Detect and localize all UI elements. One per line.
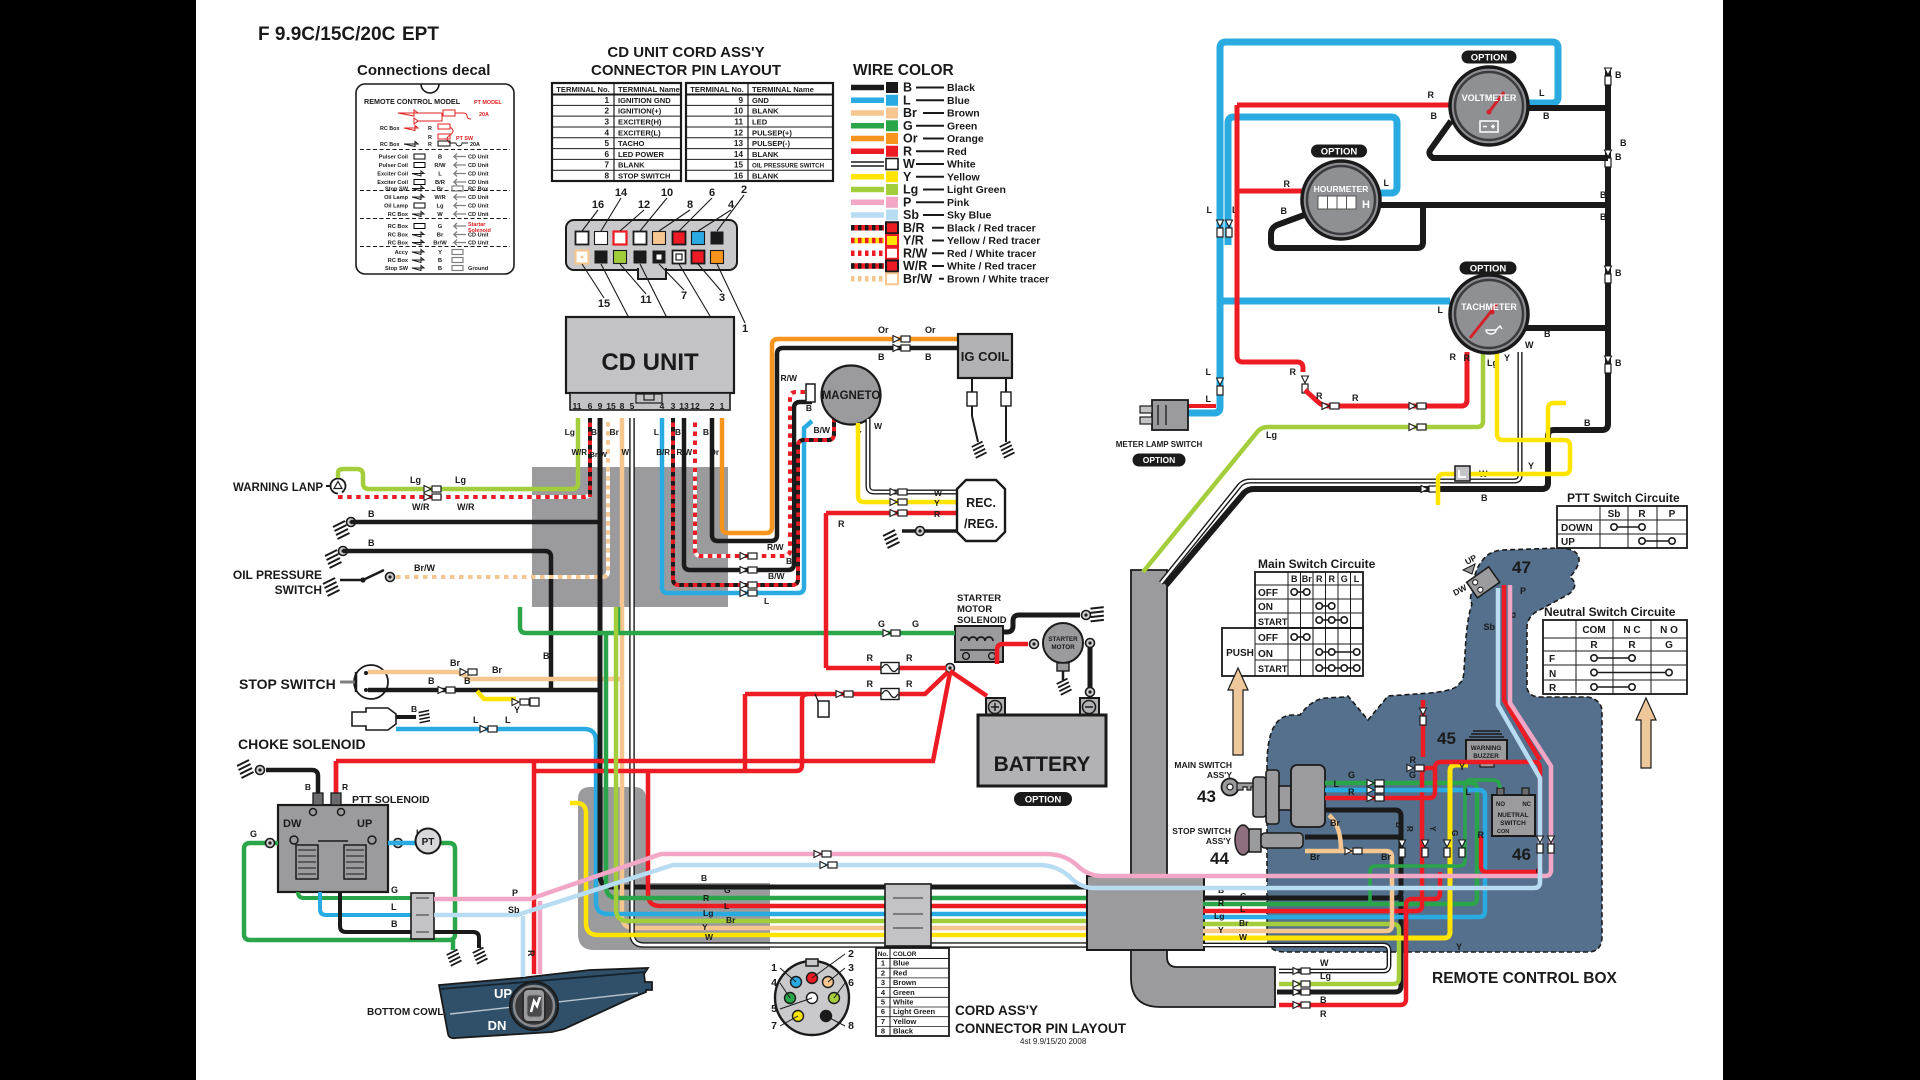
svg-text:10: 10 <box>734 107 744 116</box>
svg-text:OIL PRESSURE: OIL PRESSURE <box>233 568 322 582</box>
svg-text:EXCITER(H): EXCITER(H) <box>618 117 662 126</box>
svg-text:BLANK: BLANK <box>752 172 779 181</box>
svg-text:W: W <box>621 448 629 457</box>
svg-text:7: 7 <box>604 161 609 170</box>
svg-text:B: B <box>1620 138 1627 148</box>
svg-text:R/W: R/W <box>676 448 692 457</box>
svg-text:20A: 20A <box>470 142 480 148</box>
svg-text:Black: Black <box>893 1027 914 1036</box>
svg-text:COM: COM <box>1582 625 1605 636</box>
svg-text:B: B <box>1291 574 1298 584</box>
svg-text:2: 2 <box>848 948 854 960</box>
svg-text:DW: DW <box>283 818 302 830</box>
svg-text:2: 2 <box>604 107 609 116</box>
svg-text:METER LAMP SWITCH: METER LAMP SWITCH <box>1116 440 1203 449</box>
svg-text:G: G <box>250 829 257 839</box>
svg-text:R: R <box>1464 353 1471 363</box>
svg-text:B: B <box>925 352 932 362</box>
svg-text:B: B <box>1544 329 1551 339</box>
svg-text:START: START <box>1258 617 1288 627</box>
svg-text:RC Box: RC Box <box>388 224 409 230</box>
svg-text:TACHMETER: TACHMETER <box>1461 302 1517 312</box>
svg-text:VOLTMETER: VOLTMETER <box>1462 93 1517 103</box>
svg-text:Lg: Lg <box>455 475 466 485</box>
svg-text:RC Box: RC Box <box>388 233 409 239</box>
svg-text:MAGNETO: MAGNETO <box>822 390 881 402</box>
svg-text:45: 45 <box>1437 729 1456 748</box>
svg-text:Yellow: Yellow <box>947 171 981 183</box>
svg-text:1: 1 <box>742 323 748 335</box>
svg-text:13: 13 <box>679 401 689 411</box>
svg-text:UP: UP <box>494 986 512 1001</box>
svg-text:Light Green: Light Green <box>947 184 1006 196</box>
svg-text:B: B <box>703 427 709 437</box>
svg-text:Ground: Ground <box>468 266 489 272</box>
svg-text:Br/W: Br/W <box>590 450 608 459</box>
svg-text:4: 4 <box>771 977 777 989</box>
svg-text:R: R <box>703 893 709 903</box>
svg-text:G: G <box>1348 770 1355 780</box>
svg-text:EXCITER(L): EXCITER(L) <box>618 128 661 137</box>
svg-text:Pulser Coil: Pulser Coil <box>379 155 409 161</box>
svg-text:P: P <box>512 888 518 898</box>
svg-text:BLANK: BLANK <box>752 107 779 116</box>
svg-text:R: R <box>526 950 536 957</box>
svg-text:F: F <box>1549 654 1555 665</box>
svg-text:BOTTOM COWL: BOTTOM COWL <box>367 1007 443 1018</box>
svg-text:B/R: B/R <box>656 448 670 457</box>
svg-text:R: R <box>906 679 913 689</box>
svg-text:11: 11 <box>573 401 582 411</box>
svg-text:White / Red tracer: White / Red tracer <box>947 261 1036 273</box>
svg-text:Stop SW: Stop SW <box>385 266 409 272</box>
svg-text:Br: Br <box>437 233 444 239</box>
svg-text:6: 6 <box>604 150 609 159</box>
svg-text:REMOTE CONTROL MODEL: REMOTE CONTROL MODEL <box>364 97 461 106</box>
svg-text:G: G <box>1240 891 1247 901</box>
svg-text:R: R <box>1410 755 1417 765</box>
svg-text:Br: Br <box>1330 818 1340 828</box>
svg-text:1: 1 <box>771 962 777 974</box>
svg-text:B: B <box>591 427 597 437</box>
svg-text:10: 10 <box>661 187 673 199</box>
svg-text:4: 4 <box>604 128 609 137</box>
svg-text:43: 43 <box>1197 787 1216 806</box>
svg-text:Exciter Coil: Exciter Coil <box>377 180 408 186</box>
svg-text:B: B <box>464 676 471 686</box>
svg-text:L: L <box>654 427 659 437</box>
svg-text:Exciter Coil: Exciter Coil <box>377 172 408 178</box>
svg-text:Br: Br <box>1381 852 1391 862</box>
svg-text:UP: UP <box>1561 537 1575 548</box>
svg-text:L: L <box>473 715 479 725</box>
svg-text:Orange: Orange <box>947 133 984 145</box>
svg-text:ASS'Y: ASS'Y <box>1206 836 1231 846</box>
svg-text:Y: Y <box>1456 942 1462 952</box>
svg-text:3: 3 <box>671 401 676 411</box>
svg-text:3: 3 <box>719 292 725 304</box>
svg-text:NC: NC <box>1522 802 1531 808</box>
svg-text:W/R: W/R <box>434 195 446 201</box>
svg-text:Br: Br <box>437 187 444 193</box>
svg-text:Br: Br <box>1310 852 1320 862</box>
svg-text:Y: Y <box>1218 925 1224 935</box>
svg-text:5: 5 <box>630 401 635 411</box>
svg-text:PUSH: PUSH <box>1226 648 1254 659</box>
svg-text:TACHO: TACHO <box>618 139 645 148</box>
svg-text:REMOTE CONTROL BOX: REMOTE CONTROL BOX <box>1432 970 1618 987</box>
svg-text:R/W: R/W <box>767 542 785 552</box>
svg-text:CD Unit: CD Unit <box>468 212 489 218</box>
svg-text:Sky Blue: Sky Blue <box>947 210 992 222</box>
svg-text:6: 6 <box>881 1007 885 1016</box>
svg-text:CD UNIT CORD ASS'Y: CD UNIT CORD ASS'Y <box>607 44 764 61</box>
svg-text:RC Box: RC Box <box>380 142 399 148</box>
svg-text:B: B <box>786 556 792 566</box>
svg-text:L: L <box>1384 178 1390 188</box>
svg-text:B: B <box>438 266 442 272</box>
svg-text:L: L <box>764 596 769 606</box>
svg-text:8: 8 <box>604 172 609 181</box>
svg-text:R: R <box>1284 179 1291 189</box>
svg-text:G: G <box>1450 830 1459 836</box>
svg-text:8: 8 <box>848 1020 854 1032</box>
svg-text:ON: ON <box>1258 602 1273 613</box>
svg-text:NUETRAL: NUETRAL <box>1497 812 1528 819</box>
svg-text:47: 47 <box>1512 558 1531 577</box>
svg-text:RC Box: RC Box <box>380 126 399 132</box>
svg-text:Lg: Lg <box>1266 430 1277 440</box>
svg-text:LED POWER: LED POWER <box>618 150 665 159</box>
svg-text:Brown / White tracer: Brown / White tracer <box>947 273 1049 285</box>
svg-text:R: R <box>1348 787 1355 797</box>
svg-text:CD UNIT: CD UNIT <box>601 349 699 376</box>
svg-text:W/R: W/R <box>571 448 587 457</box>
svg-text:WARNING LANP: WARNING LANP <box>233 482 323 494</box>
svg-text:OIL PRESSURE SWITCH: OIL PRESSURE SWITCH <box>752 163 825 170</box>
svg-text:CD Unit: CD Unit <box>468 163 489 169</box>
svg-text:3: 3 <box>848 962 854 974</box>
svg-text:R: R <box>1549 683 1557 694</box>
svg-text:COLOR: COLOR <box>893 951 917 958</box>
svg-text:WARNING: WARNING <box>1471 745 1502 752</box>
svg-text:P: P <box>1669 509 1676 520</box>
svg-text:B: B <box>806 403 812 413</box>
svg-text:B: B <box>1481 493 1488 503</box>
svg-text:13: 13 <box>734 139 744 148</box>
svg-text:CD Unit: CD Unit <box>468 233 489 239</box>
svg-text:R: R <box>428 142 432 148</box>
svg-text:Lg: Lg <box>410 475 421 485</box>
svg-text:PTT Switch Circuite: PTT Switch Circuite <box>1567 491 1680 505</box>
svg-text:44: 44 <box>1210 849 1229 868</box>
svg-text:Lg: Lg <box>1320 971 1331 981</box>
svg-text:Y: Y <box>1428 826 1437 832</box>
svg-text:Y: Y <box>702 922 708 932</box>
svg-text:Connections decal: Connections decal <box>357 62 490 79</box>
svg-text:Br/W: Br/W <box>414 563 436 573</box>
svg-text:Br: Br <box>610 427 620 437</box>
svg-text:B: B <box>1615 70 1622 80</box>
svg-text:R: R <box>1320 1009 1327 1019</box>
svg-text:STOP SWITCH: STOP SWITCH <box>618 172 670 181</box>
svg-text:R: R <box>867 653 874 663</box>
svg-text:L: L <box>1240 904 1245 914</box>
svg-text:START: START <box>1258 664 1288 674</box>
svg-text:W: W <box>437 212 443 218</box>
svg-text:9: 9 <box>738 96 743 105</box>
svg-text:CON: CON <box>1497 829 1509 835</box>
svg-text:R: R <box>342 782 348 792</box>
svg-text:B: B <box>368 538 375 548</box>
svg-text:Br: Br <box>492 665 502 675</box>
svg-text:B: B <box>438 155 442 161</box>
svg-text:N O: N O <box>1660 625 1678 636</box>
svg-text:W: W <box>934 488 943 498</box>
svg-text:R: R <box>1316 574 1323 584</box>
svg-text:Blue: Blue <box>893 959 909 968</box>
svg-text:B: B <box>1394 822 1403 828</box>
svg-text:11: 11 <box>734 117 743 126</box>
svg-text:3: 3 <box>604 117 609 126</box>
svg-text:Black: Black <box>947 82 975 94</box>
svg-text:EPT: EPT <box>402 24 439 45</box>
svg-text:12: 12 <box>690 401 700 411</box>
svg-text:MOTOR: MOTOR <box>1051 644 1075 651</box>
svg-text:Y: Y <box>1528 461 1534 471</box>
svg-text:N: N <box>1549 669 1556 680</box>
svg-text:9: 9 <box>598 401 603 411</box>
svg-text:4st 9.9/15/20 2008: 4st 9.9/15/20 2008 <box>1020 1037 1087 1046</box>
svg-text:Green: Green <box>947 120 977 132</box>
svg-text:B: B <box>368 509 375 519</box>
svg-text:Lg: Lg <box>436 204 444 210</box>
svg-text:Main Switch Circuite: Main Switch Circuite <box>1258 557 1376 571</box>
svg-text:B/R: B/R <box>435 180 446 186</box>
svg-text:B: B <box>391 919 398 929</box>
svg-text:CD Unit: CD Unit <box>468 172 489 178</box>
svg-text:R: R <box>1352 393 1359 403</box>
svg-text:R: R <box>428 126 432 132</box>
svg-text:Y: Y <box>514 705 520 715</box>
svg-text:Sb: Sb <box>1483 622 1495 632</box>
svg-text:5: 5 <box>604 139 609 148</box>
svg-text:B: B <box>675 427 681 437</box>
svg-text:RC Box: RC Box <box>388 212 409 218</box>
svg-text:1: 1 <box>604 96 609 105</box>
svg-text:15: 15 <box>598 298 610 310</box>
svg-text:Sb: Sb <box>508 905 520 915</box>
svg-text:B: B <box>1320 995 1327 1005</box>
svg-text:B: B <box>411 704 417 714</box>
svg-text:HOURMETER: HOURMETER <box>1314 184 1369 194</box>
svg-text:STOP SWITCH: STOP SWITCH <box>239 676 336 692</box>
svg-text:8: 8 <box>881 1027 885 1036</box>
svg-text:OPTION: OPTION <box>1321 146 1358 157</box>
svg-text:8: 8 <box>620 401 625 411</box>
svg-text:B: B <box>1600 190 1607 200</box>
svg-text:Oil Lamp: Oil Lamp <box>384 204 409 210</box>
svg-text:L: L <box>505 715 511 725</box>
svg-text:Or: Or <box>878 325 889 335</box>
svg-text:MAIN SWITCH: MAIN SWITCH <box>1174 760 1232 770</box>
svg-text:STOP SWITCH: STOP SWITCH <box>1172 826 1231 836</box>
svg-text:Lg: Lg <box>1214 911 1224 921</box>
svg-text:Y: Y <box>1504 353 1510 363</box>
svg-text:Pink: Pink <box>947 197 969 209</box>
svg-text:L: L <box>438 172 442 178</box>
svg-text:OFF: OFF <box>1258 588 1278 599</box>
svg-text:PT MODEL: PT MODEL <box>474 100 503 106</box>
svg-text:RC Box: RC Box <box>388 258 409 264</box>
svg-text:OPTION: OPTION <box>1025 794 1062 805</box>
svg-text:DOWN: DOWN <box>1561 523 1593 534</box>
svg-text:WIRE COLOR: WIRE COLOR <box>853 62 954 79</box>
svg-text:W: W <box>705 932 714 942</box>
svg-text:TERMINAL No.: TERMINAL No. <box>690 85 743 94</box>
svg-text:TERMINAL Name: TERMINAL Name <box>752 85 814 94</box>
svg-text:6: 6 <box>848 977 854 989</box>
svg-text:IG COIL: IG COIL <box>961 349 1009 364</box>
svg-text:12: 12 <box>638 199 650 211</box>
svg-text:OPTION: OPTION <box>1471 52 1508 63</box>
svg-text:ON: ON <box>1258 649 1273 660</box>
svg-text:G: G <box>438 224 443 230</box>
svg-text:16: 16 <box>592 199 604 211</box>
svg-text:L: L <box>1207 205 1213 215</box>
svg-text:CD Unit: CD Unit <box>468 204 489 210</box>
svg-text:TERMINAL Name: TERMINAL Name <box>618 85 680 94</box>
svg-text:1: 1 <box>881 959 885 968</box>
svg-text:G: G <box>1409 770 1416 780</box>
svg-text:B: B <box>305 782 311 792</box>
svg-text:7: 7 <box>881 1017 885 1026</box>
svg-text:BLANK: BLANK <box>752 150 779 159</box>
svg-text:CORD ASS'Y: CORD ASS'Y <box>955 1003 1038 1018</box>
svg-text:B: B <box>701 873 707 883</box>
svg-text:RC Box: RC Box <box>388 241 409 247</box>
svg-text:R: R <box>1638 509 1646 520</box>
svg-text:R: R <box>1290 367 1297 377</box>
svg-text:Lg: Lg <box>565 427 575 437</box>
svg-text:BLANK: BLANK <box>618 161 645 170</box>
svg-text:B: B <box>428 676 435 686</box>
svg-text:Neutral Switch Circuite: Neutral Switch Circuite <box>1544 605 1676 619</box>
svg-text:G: G <box>724 885 731 895</box>
svg-text:Br: Br <box>450 658 460 668</box>
svg-text:SWITCH: SWITCH <box>1500 820 1526 827</box>
svg-text:L: L <box>1438 305 1444 315</box>
svg-text:6: 6 <box>588 401 593 411</box>
svg-text:2: 2 <box>741 184 747 196</box>
svg-text:2: 2 <box>881 968 885 977</box>
svg-text:46: 46 <box>1512 845 1531 864</box>
svg-text:B: B <box>1431 111 1438 121</box>
svg-text:R: R <box>906 653 913 663</box>
svg-text:L: L <box>1334 779 1340 789</box>
svg-text:Light Green: Light Green <box>893 1007 936 1016</box>
svg-text:Or: Or <box>925 325 936 335</box>
svg-text:B: B <box>1584 418 1591 428</box>
svg-text:G: G <box>391 885 398 895</box>
svg-text:Green: Green <box>893 988 915 997</box>
svg-text:G: G <box>878 619 885 629</box>
svg-text:B: B <box>1281 206 1288 216</box>
svg-text:Br/W: Br/W <box>903 272 932 286</box>
svg-text:B: B <box>438 258 442 264</box>
svg-text:B: B <box>1615 268 1622 278</box>
svg-text:CHOKE SOLENOID: CHOKE SOLENOID <box>238 736 366 752</box>
svg-text:L: L <box>724 901 729 911</box>
svg-text:2: 2 <box>710 401 715 411</box>
svg-text:No.: No. <box>878 951 889 958</box>
svg-text:LED: LED <box>752 117 768 126</box>
svg-text:G: G <box>1341 574 1348 584</box>
svg-text:R: R <box>1450 352 1457 362</box>
svg-text:R: R <box>428 135 432 141</box>
svg-text:Red / White tracer: Red / White tracer <box>947 248 1036 260</box>
svg-text:IGNITION GND: IGNITION GND <box>618 96 671 105</box>
svg-text:Sb: Sb <box>1608 509 1621 520</box>
svg-text:B: B <box>1615 358 1622 368</box>
svg-text:Oil Lamp: Oil Lamp <box>384 195 409 201</box>
svg-text:7: 7 <box>681 290 687 302</box>
svg-text:20A: 20A <box>479 112 489 118</box>
svg-text:R: R <box>1478 830 1485 840</box>
svg-text:L: L <box>1466 787 1472 797</box>
svg-text:PT: PT <box>422 837 435 848</box>
svg-text:11: 11 <box>640 294 652 306</box>
svg-text:Or: Or <box>710 448 719 457</box>
svg-text:CD Unit: CD Unit <box>468 155 489 161</box>
svg-text:Red: Red <box>893 968 908 977</box>
svg-text:P: P <box>1520 586 1526 596</box>
svg-text:White: White <box>893 998 913 1007</box>
svg-text:6: 6 <box>709 187 715 199</box>
svg-text:W: W <box>1525 340 1534 350</box>
svg-text:OPTION: OPTION <box>1143 455 1176 465</box>
svg-text:R: R <box>867 679 874 689</box>
svg-text:B/W: B/W <box>768 571 786 581</box>
svg-text:W: W <box>1239 932 1248 942</box>
svg-text:Red: Red <box>947 146 967 158</box>
svg-text:CD Unit: CD Unit <box>468 241 489 247</box>
svg-text:IGNITION(+): IGNITION(+) <box>618 107 662 116</box>
svg-text:B: B <box>878 352 885 362</box>
svg-text:12: 12 <box>734 128 744 137</box>
svg-text:3: 3 <box>881 978 885 987</box>
svg-text:Brown: Brown <box>947 108 980 120</box>
svg-text:4: 4 <box>660 401 665 411</box>
svg-text:R/W: R/W <box>434 163 446 169</box>
svg-text:White: White <box>947 159 976 171</box>
svg-text:14: 14 <box>615 187 628 199</box>
svg-text:Y: Y <box>1459 762 1465 772</box>
svg-text:STARTER: STARTER <box>1048 636 1078 643</box>
svg-text:R/W: R/W <box>780 373 798 383</box>
svg-text:Br/W: Br/W <box>433 241 447 247</box>
svg-text:7: 7 <box>771 1020 777 1032</box>
svg-text:B: B <box>1615 152 1622 162</box>
svg-text:Y: Y <box>438 250 442 256</box>
svg-text:Yellow / Red tracer: Yellow / Red tracer <box>947 235 1040 247</box>
svg-text:B/W: B/W <box>813 425 831 435</box>
svg-text:Yellow: Yellow <box>893 1017 917 1026</box>
svg-text:R: R <box>838 519 845 529</box>
svg-text:15: 15 <box>606 401 616 411</box>
svg-text:B: B <box>1600 212 1607 222</box>
svg-text:B: B <box>1543 111 1550 121</box>
